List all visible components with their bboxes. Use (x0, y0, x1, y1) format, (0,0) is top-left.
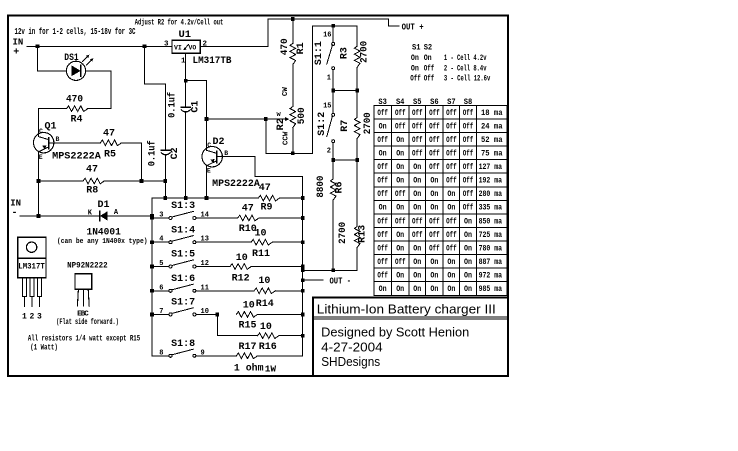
junction right bus at R11 (301, 240, 305, 244)
svg-text:(can be any 1N400x type): (can be any 1N400x type) (57, 238, 148, 246)
svg-text:R1: R1 (296, 42, 307, 54)
svg-text:On: On (447, 190, 455, 199)
svg-text:14: 14 (201, 212, 209, 220)
svg-text:On: On (464, 231, 472, 240)
junction left bus row S1:7 (150, 313, 154, 317)
junction right bus at R10 (301, 216, 305, 220)
svg-text:On: On (464, 244, 472, 253)
svg-text:10: 10 (236, 253, 248, 264)
svg-text:Off: Off (395, 122, 406, 131)
svg-text:Off: Off (412, 217, 423, 226)
svg-text:Off: Off (446, 217, 457, 226)
switch S1:5 (pins 5/12) (152, 266, 169, 268)
svg-text:2: 2 (327, 148, 331, 156)
svg-text:OUT +: OUT + (402, 21, 424, 32)
junction R5 lead on R8 row (140, 179, 144, 183)
svg-text:R16: R16 (259, 342, 277, 353)
svg-text:OUT -: OUT - (330, 275, 352, 286)
wire C2 bottom through R8 row to R9 row (165, 155, 167, 199)
svg-text:C: C (207, 142, 211, 149)
wire left DIP-switch bus (151, 198, 153, 356)
svg-text:E: E (207, 168, 211, 175)
wire R6 / R13 bottom row to right bus (303, 269, 358, 271)
svg-text:Off: Off (395, 217, 406, 226)
svg-text:On: On (379, 204, 387, 213)
resistor R8 47 (83, 178, 104, 184)
svg-text:On: On (396, 285, 404, 294)
svg-text:3: 3 (37, 312, 42, 321)
junction left bus row S1:5 (150, 265, 154, 269)
svg-text:C2: C2 (170, 147, 181, 159)
svg-text:Off: Off (446, 231, 457, 240)
svg-text:470: 470 (66, 95, 83, 106)
svg-text:On: On (447, 272, 455, 281)
wire IN- rail to D1 (20, 215, 100, 217)
LED DS1 (66, 61, 85, 80)
svg-text:9: 9 (201, 349, 205, 357)
junction C2 on R9 row (163, 196, 167, 200)
svg-text:R6: R6 (334, 181, 345, 193)
svg-text:R2: R2 (275, 118, 287, 131)
svg-text:E: E (39, 154, 43, 161)
svg-text:On: On (411, 54, 419, 63)
svg-text:R13: R13 (358, 225, 369, 243)
svg-text:2 - Cell 8.4v: 2 - Cell 8.4v (444, 64, 487, 73)
svg-text:24 ma: 24 ma (481, 122, 503, 131)
svg-text:13: 13 (201, 236, 209, 244)
svg-text:Off: Off (395, 109, 406, 118)
wire D2 base jog to right bus top (217, 157, 303, 177)
svg-text:Designed by Scott Henion: Designed by Scott Henion (321, 326, 469, 340)
svg-text:Off: Off (377, 177, 388, 186)
svg-text:Off: Off (377, 163, 388, 172)
switch S1:7 (pins 7/10) (152, 313, 169, 315)
capacitor C2 0.1uf (161, 149, 170, 151)
svg-text:5: 5 (159, 260, 163, 268)
svg-text:CCW: CCW (283, 131, 291, 145)
resistor R15 10 (236, 312, 257, 318)
svg-text:Off: Off (377, 217, 388, 226)
svg-text:MPS2222A: MPS2222A (212, 178, 260, 189)
wire Q1 base to R5 (49, 142, 101, 144)
wire S1:7 node down to R16 row (216, 314, 218, 335)
svg-text:47: 47 (103, 128, 115, 139)
svg-text:2700: 2700 (363, 112, 374, 134)
svg-text:R5: R5 (104, 150, 116, 161)
svg-text:S1: S1 (412, 44, 421, 53)
svg-text:Off: Off (463, 136, 474, 145)
U1 adjust arrow (185, 45, 189, 50)
wire R10 right lead (259, 217, 303, 219)
resistor R17 1 ohm (236, 353, 257, 359)
resistor R5 47 (100, 140, 121, 146)
svg-text:11: 11 (201, 284, 209, 292)
svg-text:D1: D1 (98, 200, 110, 211)
wire DS1 cathode to R4 (86, 71, 111, 109)
svg-text:On: On (413, 272, 421, 281)
potentiometer R2 500 (290, 107, 296, 128)
svg-text:R17: R17 (238, 342, 256, 353)
resistor R16 10 (258, 333, 279, 339)
diode D1 1N4001 (99, 211, 101, 221)
svg-text:Off: Off (463, 109, 474, 118)
svg-text:3: 3 (164, 40, 169, 48)
wire R8 right lead to C2 line (104, 180, 165, 182)
switch S1:2 (pins 15/2) (332, 91, 334, 114)
svg-text:1 ohm: 1 ohm (234, 362, 264, 374)
resistor R7 2700 (356, 91, 358, 118)
junction on IN+ rail at C2 branch (143, 44, 147, 48)
svg-text:8800: 8800 (316, 176, 327, 198)
TO-220 legs (22, 278, 41, 307)
svg-text:1W: 1W (265, 363, 277, 374)
LM317T TO-220 package drawing (18, 237, 46, 258)
svg-text:On: On (430, 285, 438, 294)
svg-text:Off: Off (410, 74, 421, 83)
wire U1 VO to OUT+ rail (200, 19, 399, 46)
svg-text:Lithium-Ion Battery charger II: Lithium-Ion Battery charger III (317, 301, 496, 316)
junction S1:7 output node (215, 313, 219, 317)
svg-text:2: 2 (29, 312, 34, 321)
svg-text:2: 2 (203, 40, 208, 48)
svg-text:Off: Off (377, 272, 388, 281)
junction D2 collector line at R2 wiper wire (205, 117, 209, 121)
svg-text:Off: Off (377, 109, 388, 118)
resistor R14 10 (254, 288, 275, 294)
svg-text:10: 10 (260, 322, 272, 333)
transistor D2 MPS2222A (202, 147, 222, 167)
svg-text:DS1: DS1 (64, 52, 78, 64)
svg-text:2700: 2700 (360, 41, 371, 63)
table grid (374, 105, 507, 295)
svg-text:Off: Off (395, 190, 406, 199)
svg-text:D2: D2 (213, 137, 225, 148)
resistor R11 10 (251, 239, 272, 245)
svg-text:R11: R11 (252, 249, 270, 260)
svg-text:S1:4: S1:4 (171, 224, 195, 235)
border frame (8, 16, 508, 377)
wire R2 bottom row up to S1:1 top bus (313, 26, 358, 154)
svg-text:Off: Off (446, 122, 457, 131)
svg-text:S1:7: S1:7 (171, 297, 195, 308)
svg-text:Off: Off (446, 136, 457, 145)
svg-text:12v in for 1-2 cells, 15-18v f: 12v in for 1-2 cells, 15-18v for 3C (15, 27, 136, 37)
svg-text:Off: Off (463, 150, 474, 159)
wire R9 row (IN- node) (152, 197, 258, 199)
wire Q1 emitter down to IN- rail (38, 152, 40, 216)
junction on IN+ rail at DS1 branch (36, 44, 40, 48)
junction IN- rail at Q1 emitter (37, 214, 41, 218)
wire R12 right lead (251, 266, 303, 268)
svg-text:10: 10 (201, 308, 209, 316)
wire R16 left lead (217, 335, 257, 337)
svg-text:On: On (413, 190, 421, 199)
resistor R4 470 (67, 106, 88, 112)
svg-text:w: w (277, 111, 282, 119)
switch S1:1 (pins 16/1) (332, 26, 334, 43)
svg-text:3 - Cell 12.6v: 3 - Cell 12.6v (444, 74, 491, 83)
svg-text:887 ma: 887 ma (479, 258, 503, 267)
svg-text:On: On (447, 285, 455, 294)
wire R2 wiper feed (207, 118, 266, 120)
svg-text:On: On (413, 244, 421, 253)
resistor R9 47 (258, 195, 279, 201)
wire OUT- stub (303, 279, 323, 281)
svg-text:LM317T: LM317T (18, 262, 45, 271)
wire S1:1 / R3 bottom row (333, 90, 357, 92)
svg-text:SHDesigns: SHDesigns (321, 355, 380, 369)
wire U1 pin1 node down to C1 (185, 81, 187, 108)
svg-text:725 ma: 725 ma (479, 231, 503, 240)
R2 wiper arrow (266, 118, 286, 120)
svg-text:S2: S2 (424, 44, 433, 53)
svg-text:S1:8: S1:8 (171, 338, 195, 349)
svg-text:Off: Off (429, 150, 440, 159)
svg-text:R14: R14 (256, 299, 274, 310)
resistor R6 8800 (332, 160, 334, 179)
wire R2 bottom lead (292, 128, 294, 154)
junction U1 pin1 node (184, 79, 188, 83)
svg-text:0.1uf: 0.1uf (166, 92, 177, 118)
switch S1:3 (pins 3/14) (152, 217, 169, 219)
svg-text:75 ma: 75 ma (481, 150, 503, 159)
svg-text:On: On (396, 204, 404, 213)
switch S1:4 (pins 4/13) (152, 241, 169, 243)
wire R11 right lead (272, 241, 302, 243)
svg-text:15: 15 (323, 103, 331, 111)
svg-text:6: 6 (159, 284, 163, 292)
svg-text:Off: Off (446, 109, 457, 118)
junction R6 bottom (331, 268, 335, 272)
wire R5 right lead down to R8 row (122, 143, 142, 181)
svg-text:Off: Off (429, 244, 440, 253)
junction right bus at R6-R13 row (301, 268, 305, 272)
wire R9 right lead to right bus (280, 197, 303, 199)
wire R8 left lead (39, 180, 84, 182)
svg-text:18 ma: 18 ma (481, 109, 503, 118)
svg-text:1 - Cell 4.2v: 1 - Cell 4.2v (444, 54, 487, 63)
svg-text:On: On (379, 150, 387, 159)
svg-text:Off: Off (446, 150, 457, 159)
wire U1 pin1 down (185, 53, 187, 80)
svg-text:On: On (424, 54, 432, 63)
svg-text:IN: IN (13, 37, 24, 47)
svg-text:985 ma: 985 ma (479, 285, 503, 294)
svg-text:On: On (413, 285, 421, 294)
svg-text:On: On (430, 258, 438, 267)
svg-text:47: 47 (259, 183, 271, 194)
junction C1 on R9 row (184, 196, 188, 200)
svg-text:192 ma: 192 ma (479, 177, 503, 186)
svg-text:2700: 2700 (338, 222, 349, 244)
svg-text:Off: Off (463, 190, 474, 199)
svg-text:On: On (379, 285, 387, 294)
svg-text:Off: Off (412, 231, 423, 240)
svg-text:Off: Off (377, 190, 388, 199)
resistor R12 10 (230, 264, 251, 270)
svg-text:(Flat side forward.): (Flat side forward.) (56, 319, 118, 327)
junction left bus row S1:4 (150, 240, 154, 244)
junction right bus at OUT- (301, 278, 305, 282)
svg-text:10: 10 (243, 301, 255, 312)
svg-text:Off: Off (424, 74, 435, 83)
svg-text:850 ma: 850 ma (479, 217, 503, 226)
junction left bus row S1:6 (150, 289, 154, 293)
svg-text:500: 500 (297, 107, 308, 124)
wire R14 right lead (275, 290, 302, 292)
svg-text:R8: R8 (86, 186, 98, 197)
wire DS1 anode branch (37, 46, 66, 71)
svg-text:On: On (464, 285, 472, 294)
svg-text:Off: Off (429, 163, 440, 172)
svg-text:R12: R12 (232, 274, 250, 285)
svg-text:NP92N2222: NP92N2222 (67, 260, 108, 270)
svg-text:On: On (396, 150, 404, 159)
svg-text:Off: Off (377, 244, 388, 253)
svg-text:Off: Off (429, 136, 440, 145)
svg-text:On: On (430, 272, 438, 281)
svg-text:C: C (84, 310, 89, 318)
svg-text:R7: R7 (340, 120, 351, 132)
svg-text:S1:3: S1:3 (171, 200, 195, 211)
transistor Q1 MPS2222A (34, 133, 54, 153)
svg-text:Off: Off (424, 64, 435, 73)
svg-text:1: 1 (327, 75, 331, 83)
svg-text:470: 470 (280, 38, 291, 55)
svg-text:VI: VI (174, 45, 182, 52)
svg-text:Off: Off (463, 122, 474, 131)
svg-text:Off: Off (446, 177, 457, 186)
svg-text:On: On (396, 136, 404, 145)
junction right bus at R9 (301, 196, 305, 200)
junction C2 line on R8 row (163, 179, 167, 183)
svg-text:+: + (13, 48, 19, 59)
junction right bus at R14 (301, 289, 305, 293)
svg-text:47: 47 (242, 203, 254, 214)
svg-text:On: On (396, 244, 404, 253)
svg-text:972 ma: 972 ma (479, 272, 503, 281)
svg-text:16: 16 (323, 32, 331, 40)
junction right bus at R16 (301, 334, 305, 338)
svg-text:Off: Off (395, 258, 406, 267)
svg-text:On: On (413, 177, 421, 186)
svg-text:On: On (430, 177, 438, 186)
wire IN+ jog down to C2 (145, 46, 166, 150)
svg-text:Off: Off (429, 231, 440, 240)
svg-text:1N4001: 1N4001 (87, 227, 121, 238)
svg-text:On: On (430, 204, 438, 213)
svg-text:127 ma: 127 ma (479, 163, 503, 172)
svg-text:S1:1: S1:1 (313, 41, 324, 65)
capacitor C1 0.1uf (181, 106, 190, 108)
wire D2 emitter to R9 row (206, 166, 208, 198)
svg-text:Off: Off (429, 217, 440, 226)
resistor R10 47 (238, 215, 259, 221)
op-amp/regulator U1 LM317TB (172, 40, 200, 53)
svg-text:R15: R15 (238, 321, 256, 332)
svg-text:Off: Off (463, 163, 474, 172)
resistor R3 2700 (356, 26, 358, 46)
svg-text:S1:2: S1:2 (316, 112, 327, 136)
junction bus / D1 row (150, 214, 154, 220)
svg-text:Off: Off (377, 231, 388, 240)
svg-text:-: - (12, 208, 18, 219)
junction right bus at R15 (301, 313, 305, 317)
svg-text:MPS2222A: MPS2222A (52, 150, 101, 161)
svg-text:8: 8 (159, 349, 163, 357)
svg-text:R4: R4 (70, 115, 82, 126)
svg-text:Off: Off (463, 204, 474, 213)
junction S1:1 top on bus (331, 24, 335, 28)
wire R4 left lead to Q1 collector (39, 109, 67, 137)
svg-text:Q1: Q1 (45, 121, 57, 132)
wire pin1 node to D2 collector line (186, 81, 207, 151)
svg-text:VO: VO (189, 45, 197, 52)
svg-text:R9: R9 (260, 202, 272, 213)
svg-text:Off: Off (377, 258, 388, 267)
junction Q1 emitter / R8 row (37, 179, 41, 183)
switch S1:6 (pins 6/11) (152, 290, 169, 292)
svg-text:U1: U1 (179, 29, 192, 41)
svg-text:C1: C1 (191, 101, 202, 113)
svg-text:S1:6: S1:6 (171, 273, 195, 284)
svg-text:On: On (411, 64, 419, 73)
svg-text:Off: Off (429, 109, 440, 118)
svg-text:280 ma: 280 ma (479, 190, 503, 199)
svg-text:Off: Off (412, 109, 423, 118)
svg-text:S1:5: S1:5 (171, 249, 195, 260)
svg-text:3: 3 (159, 212, 163, 220)
svg-text:On: On (413, 258, 421, 267)
junction R2 bottom lead (291, 151, 295, 155)
svg-text:On: On (396, 163, 404, 172)
svg-text:B: B (56, 136, 60, 143)
wire wiper node down to R2 bottom row (266, 119, 313, 153)
svg-text:Off: Off (446, 244, 457, 253)
svg-text:335 ma: 335 ma (479, 204, 503, 213)
wire C1 bottom to R9 row (185, 112, 187, 199)
wire S1:2 / R7 bottom row (333, 159, 357, 161)
svg-text:10: 10 (258, 276, 270, 287)
svg-text:4: 4 (159, 236, 163, 244)
svg-text:Off: Off (463, 177, 474, 186)
svg-text:1: 1 (22, 312, 27, 321)
svg-text:On: On (413, 163, 421, 172)
2N2222 TO-92 package drawing (75, 274, 92, 290)
svg-text:780 ma: 780 ma (479, 244, 503, 253)
svg-text:On: On (430, 190, 438, 199)
svg-text:CW: CW (282, 87, 290, 97)
wire D1 anode to switch bus (108, 215, 152, 217)
junction R1 top on OUT+ rail (291, 17, 295, 21)
wire R15 right lead (258, 313, 303, 315)
wire R17 right lead (258, 355, 303, 357)
junction right bus at R12 (301, 265, 305, 269)
svg-text:On: On (464, 258, 472, 267)
svg-text:Off: Off (377, 136, 388, 145)
svg-text:On: On (464, 217, 472, 226)
svg-text:0.1uf: 0.1uf (147, 140, 158, 166)
wire R1 to R2 (292, 65, 294, 107)
svg-text:C: C (39, 128, 43, 135)
svg-text:On: On (396, 177, 404, 186)
title block box (313, 298, 508, 377)
svg-text:Adjust R2 for 4.2v/Cell out: Adjust R2 for 4.2v/Cell out (135, 18, 224, 28)
svg-text:Off: Off (429, 122, 440, 131)
junction R2 wiper node (264, 117, 268, 121)
svg-text:52 ma: 52 ma (481, 136, 503, 145)
svg-text:R3: R3 (340, 47, 351, 59)
